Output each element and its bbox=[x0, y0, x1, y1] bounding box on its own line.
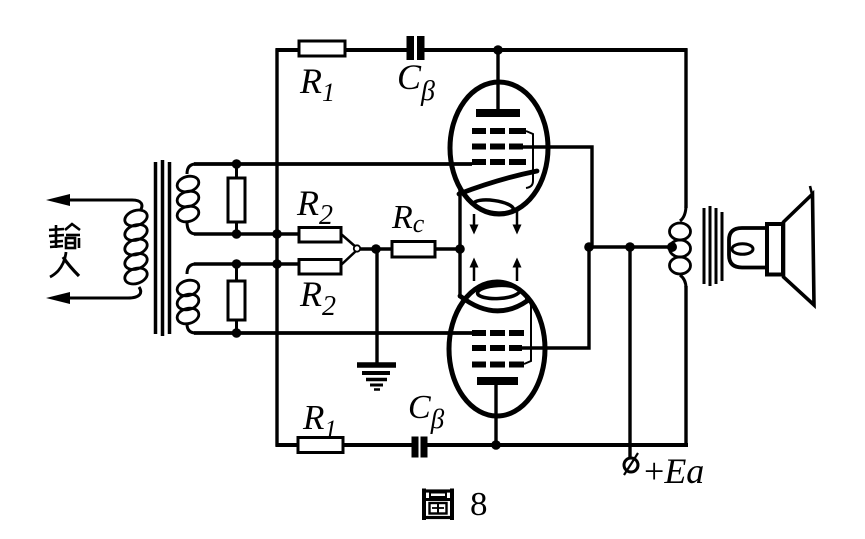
wire cathode rail bbox=[458, 186, 461, 298]
output transformer T2 center tap dot bbox=[667, 242, 677, 252]
wire ground lead bbox=[375, 249, 378, 363]
junction dot +Ea rail bbox=[625, 242, 635, 252]
output transformer T2 secondary loop frame bbox=[729, 228, 767, 268]
wire B+ rail to center tap bbox=[589, 245, 672, 249]
svg-text:Cβ: Cβ bbox=[397, 57, 435, 107]
wire screen grid lead U1 bbox=[523, 147, 592, 249]
capacitor C-beta top bbox=[407, 36, 425, 60]
resistor damping upper (across top half secondary) bbox=[228, 164, 245, 234]
resistor damping lower (across bottom half secondary) bbox=[228, 264, 245, 333]
wire inner secondary lead lower (to R2) bbox=[194, 262, 300, 266]
speaker cone bbox=[784, 194, 815, 305]
junction dot at damping resistor lower bottom bbox=[232, 328, 242, 338]
junction dot at damping resistor lower top bbox=[232, 259, 242, 269]
ground symbol bbox=[357, 365, 396, 390]
output transformer T2 secondary vesica coil bbox=[732, 244, 753, 255]
junction open circle bias node bbox=[354, 245, 360, 251]
speaker cone tip overshoot bbox=[810, 186, 813, 197]
capacitor C-beta bottom bbox=[412, 437, 428, 458]
svg-text:R2: R2 bbox=[296, 183, 333, 231]
wire plate lead of upper tube bbox=[496, 50, 499, 112]
wire +Ea lead bbox=[628, 247, 631, 458]
wire top rail left segment bbox=[276, 48, 408, 52]
tube U2 grid G3 (bottom row) bbox=[472, 362, 524, 368]
tube U2 suppressor-to-cathode internal link bbox=[524, 299, 531, 364]
wire screen grid lead U2 bbox=[520, 246, 589, 349]
junction dot at damping resistor upper bottom bbox=[232, 229, 242, 239]
svg-text:8: 8 bbox=[470, 486, 488, 523]
tube U2 cathode band bbox=[460, 296, 527, 311]
svg-text:R2: R2 bbox=[299, 274, 336, 322]
wire bottom rail left segment bbox=[276, 443, 413, 447]
svg-text:Cβ: Cβ bbox=[408, 389, 445, 434]
input transformer T1 secondary upper winding bbox=[175, 164, 200, 234]
junction dot bottom plate node bbox=[491, 440, 501, 450]
junction dot left rail upper R2 bbox=[272, 229, 282, 239]
tube U2 grid G1 (top row) bbox=[472, 330, 524, 336]
tube U2 grid G2 (middle row) bbox=[472, 345, 522, 351]
tube U1 grid G1 (bottom row) bbox=[472, 159, 526, 165]
wire bias node to Rc bbox=[360, 247, 392, 250]
resistor R1 top bbox=[299, 41, 345, 56]
tube U2 cathode lens bbox=[477, 284, 520, 299]
wire plate lead of lower tube bbox=[494, 385, 497, 445]
input transformer T1 core bbox=[156, 160, 170, 336]
terminal +Ea circle bbox=[624, 453, 638, 475]
tube U1 envelope bbox=[450, 82, 548, 214]
wire R2 lower output diagonal bbox=[341, 250, 357, 265]
tube U1 grid G2 (middle row) bbox=[472, 144, 523, 150]
resistor R2 upper bbox=[299, 228, 341, 243]
beam arrow upper-right (down) bbox=[513, 210, 522, 235]
output transformer T2 primary winding bbox=[670, 205, 691, 288]
input arrow bottom bbox=[46, 292, 70, 304]
tube U1 suppressor-to-cathode internal link bbox=[526, 131, 533, 188]
svg-text:Rc: Rc bbox=[391, 199, 425, 238]
beam arrow lower-left (up) bbox=[470, 258, 479, 282]
wire R2 upper output diagonal bbox=[341, 234, 357, 248]
label input (Chinese 输) bbox=[49, 224, 80, 248]
wire Rc to cathode node bbox=[435, 247, 462, 250]
junction dot ground node bbox=[371, 244, 381, 254]
tube U1 cathode band bbox=[459, 171, 537, 194]
output transformer T2 core bbox=[704, 206, 722, 286]
speaker flange bbox=[767, 224, 783, 275]
resistor R1 bottom bbox=[298, 438, 343, 453]
junction dot top plate node bbox=[493, 45, 503, 55]
beam arrow lower-right (up) bbox=[513, 258, 522, 282]
wire grid line upper (from input transformer to U1 control grid) bbox=[194, 162, 472, 166]
wire grid line lower (from input transformer to U2 control grid) bbox=[194, 331, 472, 335]
wire left rail bbox=[275, 49, 278, 447]
wire right rail upper bbox=[684, 49, 687, 209]
resistor R2 lower bbox=[299, 260, 341, 275]
tube U1 cathode lens bbox=[473, 198, 514, 215]
tube U2 plate bbox=[477, 377, 518, 385]
caption figure glyph (Chinese 圖) bbox=[424, 489, 452, 521]
input transformer T1 primary bottom lead with arrow bbox=[52, 287, 141, 298]
tube U1 plate bbox=[476, 109, 520, 117]
input arrow top bbox=[46, 194, 70, 206]
resistor Rc bbox=[392, 242, 435, 258]
junction dot cathode node bbox=[455, 244, 465, 254]
junction dot at damping resistor upper top bbox=[232, 159, 242, 169]
input transformer T1 secondary lower winding bbox=[175, 264, 200, 333]
tube U1 grid G3 (top row) bbox=[472, 128, 526, 134]
wire inner secondary lead upper (to R2) bbox=[194, 232, 300, 236]
label input (Chinese 入) bbox=[50, 252, 79, 277]
svg-text:+Ea: +Ea bbox=[644, 451, 704, 491]
wire top rail right segment bbox=[425, 48, 688, 52]
junction dot screen rail bbox=[584, 242, 594, 252]
wire bottom rail right segment bbox=[427, 443, 688, 447]
tube U2 envelope bbox=[449, 282, 545, 416]
beam arrow upper-left (down) bbox=[470, 214, 479, 235]
input transformer T1 primary top lead with arrow bbox=[52, 200, 142, 211]
junction dot left rail lower R2 bbox=[272, 259, 282, 269]
svg-text:R1: R1 bbox=[299, 61, 335, 107]
wire right rail lower bbox=[684, 286, 687, 447]
input transformer T1 primary winding bbox=[123, 207, 150, 286]
svg-text:R1: R1 bbox=[302, 398, 337, 443]
